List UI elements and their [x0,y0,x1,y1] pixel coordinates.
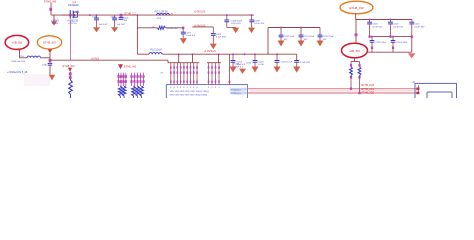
wire rail1 +0.9V horizontal [51,14,254,16]
svg-text:C222 47uF: C222 47uF [375,42,386,44]
capacitor C207 with ground arrow on branch end [180,29,196,44]
svg-text:0.1uF 6.3: 0.1uF 6.3 [186,35,196,37]
node ETH8_IN3 orange ellipse callout left [37,36,61,49]
wire ellipse2 drop with net arrow [48,49,52,63]
svg-text:8: 8 [170,87,171,89]
svg-text:6.3V 0.25: 6.3V 0.25 [231,23,241,25]
memory IC U2 box [166,85,247,101]
svg-text:PR288 2R0: PR288 2R0 [166,28,178,30]
connector J2 designator [412,82,415,84]
wire comb feeder from rail60 [168,60,199,63]
svg-text:4.7uF 16V: 4.7uF 16V [300,62,311,64]
svg-text:ETH8_IN3: ETH8_IN3 [349,6,363,10]
capacitor C212 with ground arrow [317,28,335,47]
svg-text:ETH8_IN3: ETH8_IN3 [63,64,76,68]
node +0.9VS label on rail [91,57,100,61]
capacitor value labels row [99,24,126,26]
svg-text:PL3 2.2uH: PL3 2.2uH [151,50,162,52]
svg-text:TVDDQ 4: TVDDQ 4 [231,89,241,91]
svg-text:+1.8VSUS: +1.8VSUS [204,49,216,53]
resistor pack PR293 PR294 [119,86,126,98]
svg-text:8: 8 [197,87,198,89]
connector J2 inner outline [427,92,452,101]
svg-text:ETH8_IN3: ETH8_IN3 [124,64,137,68]
svg-text:P2302AF: P2302AF [68,3,79,7]
svg-text:3: 3 [208,87,209,89]
svg-text:3: 3 [212,87,213,89]
capacitor C221 right block [409,20,425,37]
label +1.8V gen blue [7,61,28,74]
svg-text:R2402: R2402 [52,23,59,25]
node ETH8_IN3 flag left [63,64,76,72]
resistor PR288 on branch rail [137,26,184,30]
svg-text:+0.9VSUS: +0.9VSUS [194,11,206,14]
capacitor C216 right block [367,19,383,37]
svg-text:TVDDQ 4: TVDDQ 4 [231,93,241,95]
capacitor C219 near U2 with ground arrow [234,64,246,74]
wire rail right block top [356,19,412,21]
capacitor C226 pad on rail1 [119,14,130,22]
svg-text:4.7K 5%: 4.7K 5% [68,23,76,25]
svg-text:C220: C220 [393,24,399,26]
svg-text:C214: C214 [246,62,252,64]
svg-text:VSS VSS VSS VSS VSS VSSQ VSSQ: VSS VSS VSS VSS VSS VSSQ VSSQ [170,94,208,96]
inductor PL2 on rail1 [155,10,174,19]
wire faint grid artifact [24,74,50,86]
svg-text:3: 3 [219,87,220,89]
svg-text:+1.8V&+0.9V 5_28: +1.8V&+0.9V 5_28 [7,71,28,74]
wire Q1 source drop to rail60 [70,19,72,60]
svg-text:C216: C216 [372,24,378,26]
wire comb rail right segment [207,62,221,64]
node +0B_IN3 red ellipse callout [5,35,29,49]
svg-text:VDD VDD VDD VDD VDD VDDQ VDDQ: VDD VDD VDD VDD VDD VDDQ VDDQ [170,91,210,93]
pin name text row 2 inside U2 [170,94,208,96]
resistor pack PR295 PR296 PR297 [132,86,144,98]
wire ellipse4 to ground arrow [368,52,416,58]
inductor PL4 [20,56,50,58]
resistor R2402 value label [67,21,78,25]
svg-text:C223 47uF: C223 47uF [396,42,407,44]
wire ellipse4 bottom split [350,58,361,67]
svg-text:8: 8 [177,87,178,89]
svg-text:8: 8 [180,87,181,89]
svg-text:C230: C230 [42,64,48,66]
capacitor C208 with ground arrow [248,14,265,33]
label pin number blue left of U2 [160,73,163,75]
capacitor C223 with pads [391,36,408,53]
wire feeder from rail2 A [178,53,180,63]
node +0.9VSUS segment label [194,24,206,27]
svg-text:ETH8_ZQ0: ETH8_ZQ0 [362,84,375,87]
node ETH8_IN3 orange ellipse callout right [340,1,373,14]
svg-text:1: 1 [246,93,247,95]
transistor Q1 P-FET symbol [62,10,79,18]
svg-text:ETH8_IN3: ETH8_IN3 [43,40,56,44]
wire right block down to +0B line [411,37,413,53]
node ETH8_IN3 flag right [118,64,137,69]
svg-text:1uF 6.3V: 1uF 6.3V [99,24,108,26]
wire feeder from rail2 C [218,53,220,63]
svg-text:C216 4.7uF: C216 4.7uF [281,61,293,63]
connector J2 outline [415,83,457,100]
svg-text:0.1uF 6.3: 0.1uF 6.3 [234,66,244,68]
svg-text:ETH8_IN3: ETH8_IN3 [44,0,57,4]
svg-text:0.1uF 16V: 0.1uF 16V [414,26,425,28]
svg-text:0.1uF 16V: 0.1uF 16V [393,26,404,28]
wire feeder from rail2 B [192,53,194,63]
wire net ETH8_ZQ1 long horizontal [247,91,417,93]
wire rail3 horizontal with feed from rail2 [268,28,320,55]
svg-text:+0.9VS: +0.9VS [91,57,100,61]
node junction on rail1 at Q1 drain [89,14,91,16]
svg-text:3: 3 [215,87,216,89]
node ETH8_1.2 rail label [125,12,137,15]
capacitor C220 right block [388,19,404,37]
capacitor C216a with ground arrow [274,53,293,72]
svg-text:0.1uF 16V: 0.1uF 16V [254,23,265,25]
node ETH8_IN3 top-left net label [44,0,57,4]
ferrite bead PL5 [350,67,353,76]
wire from +0B_IN3 with net arrow [17,48,27,57]
wire rail right block bottom [369,35,413,37]
wire bus cluster B to resistor pack [130,73,144,86]
pin numbers row U2 top [170,87,219,89]
ground arrow below C230 [49,75,56,81]
transistor Q1 part number [68,3,79,7]
wire net ETH8_ZQ0 long horizontal [247,88,417,90]
wire rail2 horizontal +1.8VSUS [162,53,297,55]
capacitor C203 with ground arrow [92,14,100,32]
svg-text:8: 8 [193,87,194,89]
wire rail60 +0.9VS horizontal [50,59,168,61]
resistor PR290 vertical [69,72,73,98]
svg-text:8: 8 [174,87,175,89]
node +0B_IN3 red ellipse callout right [342,43,368,58]
svg-text:ETH8_ZQ1: ETH8_ZQ1 [362,88,375,91]
svg-text:C230 1uF 10V: C230 1uF 10V [11,61,26,63]
wire ellipse3 drop [355,14,357,20]
pin names U2 right side [230,88,247,95]
svg-text:1: 1 [246,89,247,91]
node ETH8_ZQ2 label [362,91,375,94]
capacitor C211 with ground arrow [298,27,315,47]
ferrite bead PL6 [358,67,361,76]
pin name text row 1 inside U2 [170,91,210,93]
capacitor C205 with ground arrow [210,34,227,50]
svg-text:ETH8_ZQ2: ETH8_ZQ2 [362,91,375,94]
svg-text:8: 8 [183,87,184,89]
wire gate stub with ground arrow [51,15,57,26]
node ETH8_ZQ1 label [362,88,375,91]
svg-text:C204: C204 [110,17,116,19]
svg-text:4.7uF: 4.7uF [258,64,264,66]
svg-text:PL2 1.2R 2A: PL2 1.2R 2A [155,10,168,13]
node ETH8_ZQ0 label [362,84,375,87]
svg-text:8: 8 [190,87,191,89]
svg-text:1uF 16V: 1uF 16V [117,24,126,26]
svg-text:4.7uF 16V: 4.7uF 16V [372,26,383,28]
wire bead PL5 to net ZQ0 [350,76,352,90]
wire ellipse3 to ellipse4 vertical [355,20,358,44]
capacitor C218 at rail2 end with ground arrow [293,54,310,73]
capacitor C222 with pads [370,36,387,53]
wire +0.9VSUS segment [192,27,213,33]
wire input vertical to Q1 [49,3,52,15]
node +1.8VSUS label [204,49,216,53]
node +0.9VSUS rail1 label [194,11,206,14]
svg-text:ETH8_1.2: ETH8_1.2 [125,12,137,15]
wire VREF pin from rail2 [229,54,231,84]
capacitor C206 with ground arrow [224,14,242,33]
svg-text:C221: C221 [414,24,420,26]
capacitor C210 with ground arrow [278,27,296,47]
wire bead PL6 to net ZQ1 [358,76,360,95]
capacitor C204 with ground arrow [110,15,118,32]
capacitor C213 with ground arrow [230,53,247,72]
wire bus cluster A to resistor pack [118,73,127,86]
svg-text:8: 8 [187,87,188,89]
capacitor C214 with ground arrow [244,53,265,72]
capacitor C230 in series on drop [42,63,52,74]
node net pads at connector [416,85,419,94]
pin comb group 2 VDDQ pins [208,63,220,85]
svg-text:0.1uF 16V: 0.1uF 16V [216,36,227,38]
pin comb group 1 VDD pins [170,63,198,85]
svg-text:+0B_IN3: +0B_IN3 [349,49,360,53]
inductor PL3 on rail2 [137,50,162,55]
wire vertical rail1 down to rail2 [136,14,138,54]
svg-text:+0B_IN3: +0B_IN3 [12,40,23,44]
svg-text:C203: C203 [92,17,98,19]
transistor Q1 designator [73,0,77,4]
label +1.8VS blue [51,20,59,25]
